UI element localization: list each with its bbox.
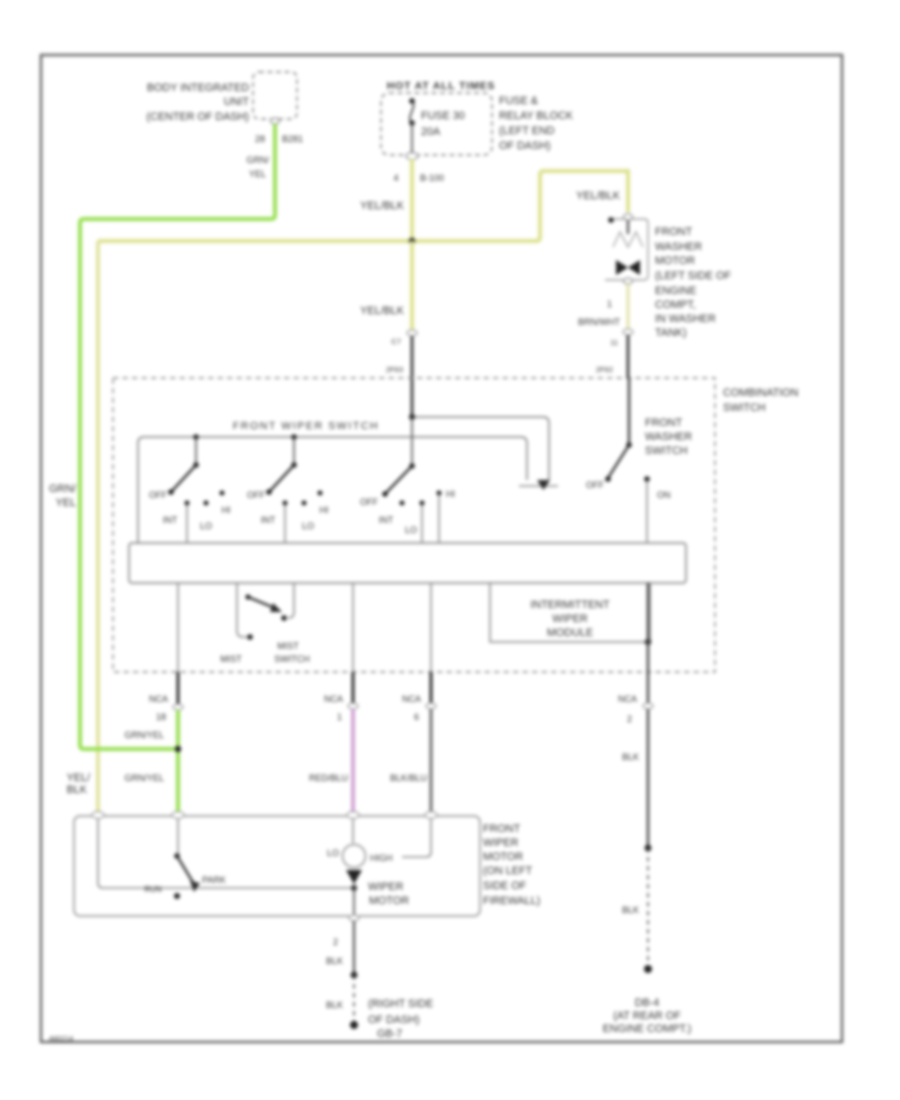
- svg-text:(ON LEFT: (ON LEFT: [483, 865, 533, 877]
- svg-text:IN WASHER: IN WASHER: [655, 313, 716, 325]
- intermittent wiper module box: [490, 583, 650, 642]
- connector C7 inline: [407, 330, 417, 336]
- fuse block dashed box: [381, 93, 492, 155]
- svg-text:BLK: BLK: [67, 784, 88, 796]
- svg-text:WIPER: WIPER: [368, 881, 404, 893]
- svg-text:RUN: RUN: [144, 885, 162, 894]
- svg-text:(RIGHT SIDE: (RIGHT SIDE: [368, 998, 433, 1010]
- ground DB-4 label: [603, 997, 692, 1035]
- svg-text:YEL/BLK: YEL/BLK: [360, 200, 405, 212]
- svg-text:18: 18: [156, 712, 166, 722]
- svg-text:FRONT: FRONT: [655, 226, 693, 238]
- svg-text:OFF: OFF: [586, 480, 604, 490]
- svg-text:2: 2: [627, 714, 632, 724]
- svg-text:INT: INT: [261, 515, 276, 525]
- svg-text:RELAY BLOCK: RELAY BLOCK: [499, 110, 574, 122]
- svg-text:6: 6: [414, 712, 419, 722]
- svg-text:BLK: BLK: [326, 1000, 343, 1010]
- wire BLK ground right: [618, 583, 653, 973]
- page border frame: [41, 55, 842, 1042]
- svg-text:MOTOR: MOTOR: [483, 851, 523, 863]
- svg-text:GRN/YEL: GRN/YEL: [124, 773, 164, 783]
- svg-text:TANK): TANK): [655, 327, 687, 339]
- wire YEL/BLK from fuse down to junction: [410, 159, 414, 241]
- wire BRN/WHT from washer motor: [578, 284, 633, 378]
- svg-text:WASHER: WASHER: [645, 431, 692, 443]
- svg-text:SWITCH: SWITCH: [274, 654, 310, 664]
- svg-text:INT: INT: [379, 515, 394, 525]
- node junction on YEL/BLK: [409, 238, 415, 244]
- svg-text:1: 1: [607, 299, 612, 309]
- svg-text:ON: ON: [657, 490, 671, 500]
- svg-text:FIREWALL): FIREWALL): [483, 895, 540, 907]
- svg-text:OFF: OFF: [360, 497, 378, 507]
- svg-text:GRN/: GRN/: [49, 483, 76, 495]
- svg-text:MIST: MIST: [277, 641, 299, 651]
- wiper switch rail: [138, 437, 527, 543]
- svg-text:ENGINE COMPT.): ENGINE COMPT.): [603, 1023, 692, 1035]
- svg-text:OFF: OFF: [247, 490, 265, 500]
- svg-text:FRONT: FRONT: [483, 823, 521, 835]
- svg-text:RED/BLU: RED/BLU: [309, 773, 348, 783]
- wire YEL/BLK horizontal run left from junction: [98, 239, 412, 243]
- svg-text:YEL/BLK: YEL/BLK: [360, 305, 405, 317]
- svg-text:28: 28: [255, 134, 265, 144]
- svg-text:INTERMITTENT: INTERMITTENT: [530, 599, 610, 611]
- wire dark segment into combination switch: [411, 336, 414, 417]
- front wiper motor box: [74, 816, 480, 916]
- svg-text:UNIT: UNIT: [224, 96, 250, 108]
- svg-text:LO: LO: [327, 848, 339, 858]
- svg-text:BLK: BLK: [326, 956, 343, 966]
- svg-text:C7: C7: [391, 337, 401, 346]
- wiper arm guide arrow: [519, 485, 558, 487]
- svg-text:NCA: NCA: [402, 694, 421, 704]
- svg-text:YEL/BLK: YEL/BLK: [576, 190, 621, 202]
- switch output bus box: [129, 543, 686, 583]
- wire GRN/YEL from BIU down-left-down to junction: [80, 124, 275, 749]
- svg-text:B281: B281: [282, 134, 303, 144]
- connector pins on wiper motor box: [92, 812, 104, 819]
- svg-text:MODULE: MODULE: [547, 627, 593, 639]
- svg-text:GRN/: GRN/: [247, 155, 270, 165]
- front washer switch label: [645, 417, 692, 457]
- svg-text:(LEFT END: (LEFT END: [499, 125, 555, 137]
- wire YEL continues to connector: [410, 241, 414, 331]
- svg-text:BLK: BLK: [622, 905, 639, 915]
- wire RED/BLU from bus to wiper motor: [309, 583, 358, 814]
- node at module corner: [645, 639, 651, 645]
- svg-text:LO: LO: [200, 521, 212, 531]
- svg-text:HI: HI: [320, 505, 329, 515]
- svg-text:OF DASH): OF DASH): [499, 140, 551, 152]
- svg-text:YEL: YEL: [249, 169, 266, 179]
- wiper switch section 3: [360, 414, 455, 543]
- svg-text:BLK: BLK: [622, 752, 639, 762]
- svg-text:MOTOR: MOTOR: [369, 895, 409, 907]
- svg-text:INT: INT: [163, 515, 178, 525]
- svg-text:ENGINE: ENGINE: [655, 285, 696, 297]
- connector pin A of fuse block: [406, 153, 418, 160]
- svg-text:WIPER: WIPER: [483, 837, 519, 849]
- svg-text:SWITCH: SWITCH: [723, 402, 766, 414]
- svg-text:2: 2: [333, 937, 338, 947]
- svg-text:GB-7: GB-7: [377, 1028, 402, 1040]
- svg-text:(CENTER OF DASH): (CENTER OF DASH): [146, 111, 249, 123]
- svg-text:FUSE 30: FUSE 30: [421, 110, 465, 122]
- svg-text:COMPT,: COMPT,: [655, 299, 696, 311]
- fuse & relay block label: [499, 95, 574, 152]
- wire BLK ground from wiper motor: [326, 915, 359, 1029]
- svg-text:11: 11: [610, 338, 618, 347]
- wire YEL/BLK branch to washer motor: [412, 171, 628, 241]
- wiper motor M: [327, 819, 409, 916]
- wiper switch feed from YEL/BLK: [412, 417, 549, 480]
- svg-text:NCA: NCA: [618, 694, 637, 704]
- svg-text:MOTOR: MOTOR: [655, 255, 695, 267]
- wiper switch section 2: [247, 434, 329, 543]
- front washer switch: [586, 378, 671, 543]
- svg-text:GRN/YEL: GRN/YEL: [124, 730, 164, 740]
- svg-text:B-100: B-100: [420, 173, 444, 183]
- svg-text:WIPER: WIPER: [552, 613, 588, 625]
- svg-text:OF DASH): OF DASH): [368, 1014, 420, 1026]
- svg-text:SIDE OF: SIDE OF: [483, 880, 527, 892]
- svg-text:FRONT WIPER SWITCH: FRONT WIPER SWITCH: [233, 420, 379, 432]
- front wiper motor label: [483, 823, 540, 907]
- svg-text:20A: 20A: [421, 126, 441, 138]
- svg-text:FRONT: FRONT: [645, 417, 683, 429]
- svg-text:YEL/: YEL/: [67, 772, 90, 784]
- wire YEL/BLK left drop to wiper motor: [96, 241, 100, 814]
- svg-text:LO: LO: [405, 525, 417, 535]
- front washer motor: [605, 214, 648, 284]
- svg-text:1: 1: [337, 712, 342, 722]
- svg-text:MIST: MIST: [220, 654, 242, 664]
- svg-text:HIGH: HIGH: [370, 853, 393, 863]
- svg-text:PARK: PARK: [202, 875, 226, 885]
- mist switch: [220, 583, 310, 664]
- svg-text:SWITCH: SWITCH: [645, 445, 688, 457]
- svg-text:BRN/WHT: BRN/WHT: [578, 317, 620, 327]
- svg-text:HI: HI: [222, 505, 231, 515]
- fuse F (FUSE 30 20A): [409, 98, 465, 153]
- svg-text:WASHER: WASHER: [655, 241, 702, 253]
- svg-text:YEL: YEL: [56, 497, 76, 509]
- svg-text:COMBINATION: COMBINATION: [723, 387, 798, 399]
- svg-text:HOT AT ALL TIMES: HOT AT ALL TIMES: [387, 80, 495, 92]
- svg-text:OFF: OFF: [149, 490, 167, 500]
- svg-text:(LEFT SIDE OF: (LEFT SIDE OF: [655, 270, 731, 282]
- svg-text:BODY INTEGRATED: BODY INTEGRATED: [147, 82, 249, 94]
- park switch feed wire inside box: [98, 819, 353, 888]
- park switch: [144, 819, 226, 899]
- svg-text:A60214: A60214: [49, 1036, 73, 1043]
- svg-text:NCA: NCA: [324, 694, 343, 704]
- body integrated unit dashed box: [253, 72, 297, 119]
- front washer motor label: [655, 226, 731, 339]
- wire BLK/BLU to HIGH terminal: [402, 819, 431, 857]
- ground GB-7 label: [368, 998, 433, 1040]
- wire BLK/BLU from bus to wiper motor: [390, 583, 436, 814]
- svg-text:2F62: 2F62: [596, 365, 613, 374]
- svg-text:LO: LO: [302, 521, 314, 531]
- wiper switch section 1: [149, 434, 231, 543]
- pin 28 of body integrated unit: [271, 118, 280, 124]
- wire GRN/YEL from bus to wiper motor: [124, 583, 183, 814]
- svg-text:2F63: 2F63: [386, 365, 403, 374]
- combination switch dashed box: [113, 378, 715, 672]
- svg-text:HI: HI: [446, 489, 455, 499]
- svg-text:DB-4: DB-4: [635, 997, 660, 1009]
- svg-text:NCA: NCA: [149, 694, 168, 704]
- svg-text:4: 4: [393, 173, 398, 183]
- svg-text:BLK/BLU: BLK/BLU: [390, 773, 427, 783]
- svg-text:(AT REAR OF: (AT REAR OF: [613, 1010, 681, 1022]
- svg-text:FUSE &: FUSE &: [499, 95, 539, 107]
